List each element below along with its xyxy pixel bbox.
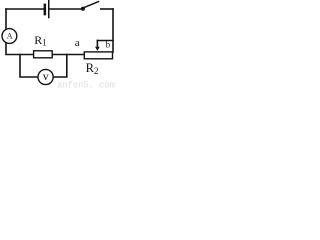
- switch S pivot dot: [81, 7, 85, 11]
- rheostat R2 box: [84, 52, 112, 59]
- wire right vertical: [112, 9, 114, 52]
- wire left vertical upper: [5, 9, 7, 29]
- battery positive thin plate: [48, 0, 50, 18]
- svg-text:a: a: [75, 37, 80, 49]
- svg-text:anfen5. com: anfen5. com: [57, 80, 115, 89]
- wire slider branch horizontal: [97, 40, 113, 42]
- wire voltmeter branch right: [53, 55, 67, 78]
- svg-text:b: b: [106, 40, 111, 50]
- battery negative thick plate: [44, 4, 47, 16]
- switch S lever: [84, 2, 99, 8]
- resistor R1 box: [34, 51, 53, 58]
- ammeter A1 circle: [2, 29, 17, 44]
- wire slider branch vertical: [96, 41, 98, 48]
- wire top-left horizontal: [6, 8, 44, 10]
- wire middle right (R1 to R2): [52, 54, 84, 56]
- svg-text:A: A: [7, 32, 13, 41]
- rheostat slider arrowhead: [95, 47, 100, 51]
- wire left vertical lower + middle wire left: [6, 43, 34, 55]
- wire battery to switch: [50, 8, 82, 10]
- wire voltmeter branch left: [20, 55, 38, 78]
- wire switch to top-right corner: [101, 8, 113, 10]
- svg-text:v: v: [43, 69, 49, 83]
- voltmeter V1 circle: [38, 69, 53, 84]
